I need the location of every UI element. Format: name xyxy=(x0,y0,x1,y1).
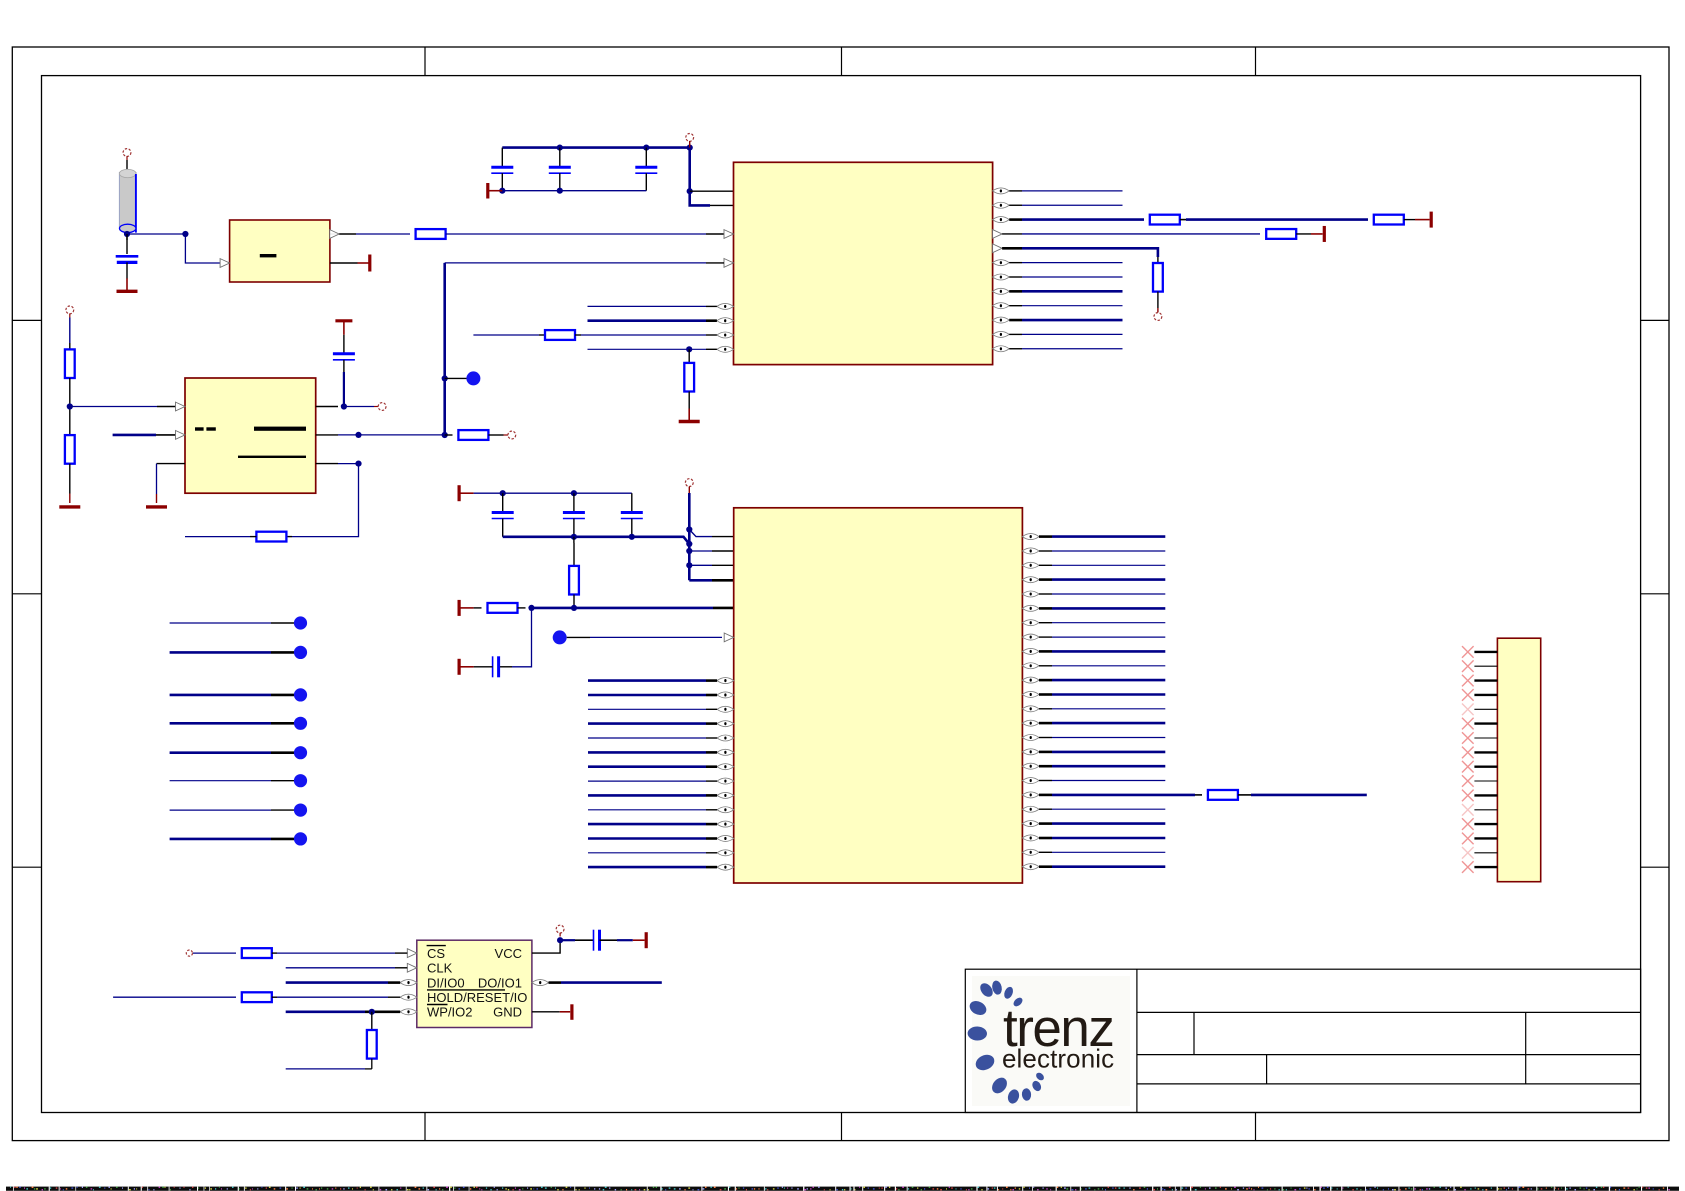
ground xyxy=(59,505,80,508)
no-ERC mark xyxy=(1462,732,1474,744)
wire xyxy=(1009,262,1122,264)
power bar xyxy=(459,600,474,616)
junction xyxy=(686,541,692,547)
wire xyxy=(690,190,734,192)
wire xyxy=(286,536,292,538)
no-ERC mark xyxy=(1462,646,1474,658)
wire xyxy=(330,262,358,264)
wire xyxy=(1009,204,1122,206)
wire xyxy=(1009,218,1144,221)
wire xyxy=(1474,737,1497,739)
wire xyxy=(1039,550,1165,552)
wire xyxy=(499,666,512,668)
wire xyxy=(588,348,717,350)
junction xyxy=(686,548,692,554)
wire xyxy=(221,262,230,264)
power bar xyxy=(633,932,646,948)
wire xyxy=(1009,333,1122,335)
power bar xyxy=(459,659,474,675)
junction xyxy=(67,403,73,409)
svg-text:CLK: CLK xyxy=(427,961,453,976)
resistor R14 xyxy=(1208,790,1238,800)
wire xyxy=(1474,866,1497,868)
resistor R9 xyxy=(65,435,75,464)
resistor R12 xyxy=(569,537,579,608)
resistor R1 xyxy=(416,229,446,239)
wire xyxy=(689,564,733,566)
resistor R8 xyxy=(65,349,75,378)
wire xyxy=(170,694,294,697)
wire RESET xyxy=(356,233,410,235)
junction xyxy=(629,534,635,540)
resistor R11 xyxy=(458,430,488,440)
wire xyxy=(343,335,345,354)
test point TP8 xyxy=(294,832,307,845)
resistor R4 xyxy=(1266,229,1296,239)
test point TP4 xyxy=(294,717,307,730)
wire xyxy=(588,837,717,840)
connector pin ring xyxy=(556,925,564,936)
no-ERC mark xyxy=(1462,689,1474,701)
wire xyxy=(688,349,690,363)
wire xyxy=(588,679,717,682)
wire xyxy=(1039,851,1165,853)
svg-text:GND: GND xyxy=(493,1005,522,1020)
resistor R15 xyxy=(242,948,272,958)
wire xyxy=(588,794,717,797)
wire xyxy=(113,996,236,998)
wire xyxy=(1474,651,1497,653)
wire EN xyxy=(113,434,176,437)
wire xyxy=(1009,305,1122,307)
wire xyxy=(170,722,294,725)
svg-text:DO/IO1: DO/IO1 xyxy=(478,975,522,990)
wire xyxy=(588,737,717,739)
wire xyxy=(1296,233,1311,235)
junction xyxy=(182,231,188,237)
wire xyxy=(1039,650,1165,653)
wire xyxy=(1157,292,1159,313)
wire xyxy=(1474,708,1497,710)
wire xyxy=(688,392,690,409)
wire xyxy=(1474,809,1497,811)
wire xyxy=(339,233,356,235)
wire xyxy=(1009,290,1122,293)
wire xyxy=(588,809,717,811)
wire xyxy=(1009,190,1122,192)
wire XTAL net xyxy=(127,233,185,235)
capacitor C4 xyxy=(635,148,657,191)
resistor R13 xyxy=(488,603,518,613)
wire xyxy=(1039,708,1165,710)
junction xyxy=(571,490,577,496)
wire xyxy=(286,981,401,984)
ground xyxy=(679,409,700,422)
capacitor C1 xyxy=(116,234,139,279)
junction xyxy=(686,346,692,352)
wire xyxy=(600,939,633,941)
wire PGOOD bus xyxy=(443,263,446,435)
title block table xyxy=(965,969,1640,1112)
wire xyxy=(445,434,453,436)
capacitor C2 xyxy=(491,148,513,191)
wire xyxy=(560,939,593,941)
power bar xyxy=(459,485,474,501)
no-ERC mark xyxy=(1462,790,1474,802)
IC U4 FPGA xyxy=(717,508,1039,883)
wire xyxy=(588,305,717,307)
junction xyxy=(643,145,649,151)
junction xyxy=(571,605,577,611)
wire xyxy=(575,334,717,336)
wire xyxy=(1002,248,1158,257)
wire VCC U4 xyxy=(532,607,734,610)
connector pin ring xyxy=(186,950,192,956)
junction xyxy=(686,562,692,568)
wire xyxy=(1009,276,1122,278)
no-ERC mark xyxy=(1462,847,1474,859)
wire xyxy=(1474,794,1497,796)
connector pin ring xyxy=(1154,313,1162,321)
test point TP2 xyxy=(294,646,307,659)
wire xyxy=(588,852,717,854)
no-ERC mark xyxy=(1462,818,1474,830)
wire xyxy=(1404,219,1415,221)
resistor R3 xyxy=(1374,215,1404,225)
wire RESET_DL xyxy=(446,233,706,235)
wire xyxy=(1474,665,1497,667)
wire xyxy=(1474,722,1497,724)
ground xyxy=(117,278,138,291)
power bar xyxy=(1415,212,1431,228)
wire xyxy=(488,434,508,436)
svg-text:CS: CS xyxy=(427,946,445,961)
wire xyxy=(170,751,294,754)
IC U2 FPGA xyxy=(717,162,1009,364)
junction xyxy=(355,432,361,438)
wire xyxy=(1039,593,1165,595)
resistor R7 xyxy=(684,363,694,392)
wire FB xyxy=(292,464,359,537)
wire xyxy=(170,780,294,782)
wire xyxy=(1039,822,1165,825)
wire xyxy=(185,234,221,263)
junction xyxy=(687,145,693,151)
no-ERC mark xyxy=(1462,775,1474,787)
trenz electronic logo xyxy=(967,976,1130,1106)
wire xyxy=(1039,535,1165,538)
wire xyxy=(69,464,71,503)
wire xyxy=(1474,823,1497,825)
wire xyxy=(1039,765,1165,768)
junction xyxy=(369,1009,375,1015)
no-ERC mark xyxy=(1462,660,1474,672)
no-connect ball xyxy=(553,630,567,644)
wire xyxy=(588,708,717,710)
wire xyxy=(1039,679,1165,682)
wire xyxy=(689,530,733,537)
wire xyxy=(473,334,545,336)
svg-text:WP/IO2: WP/IO2 xyxy=(427,1005,473,1020)
connector pin ring xyxy=(378,403,386,411)
no-ERC mark xyxy=(1462,718,1474,730)
test point TP1 xyxy=(294,616,307,629)
junction xyxy=(687,188,693,194)
no-ERC mark xyxy=(1462,704,1474,716)
svg-text:HOLD/RESET/IO: HOLD/RESET/IO xyxy=(427,990,527,1005)
crystal X1 xyxy=(119,169,136,232)
wire xyxy=(1039,564,1165,566)
wire xyxy=(316,406,338,408)
connector pin ring xyxy=(66,306,74,318)
wire xyxy=(1039,837,1165,840)
no-ERC mark xyxy=(1462,804,1474,816)
capacitor C10 xyxy=(594,930,600,951)
wire xyxy=(445,262,724,264)
wire xyxy=(1039,794,1202,797)
wire xyxy=(474,666,493,668)
power terminal ring xyxy=(686,134,694,148)
junction xyxy=(442,375,448,381)
no-connect ball xyxy=(466,371,480,385)
wire xyxy=(1039,737,1165,739)
no-ERC mark xyxy=(1462,747,1474,759)
wire xyxy=(126,233,128,240)
wire xyxy=(1039,578,1165,581)
wire xyxy=(157,463,186,465)
resistor R2 xyxy=(1150,215,1180,225)
wire xyxy=(1039,808,1165,810)
power bar xyxy=(358,255,370,272)
wire xyxy=(1157,257,1159,263)
resistor R16 xyxy=(242,992,272,1002)
wire xyxy=(1039,607,1165,610)
wire xyxy=(1474,837,1497,839)
wire xyxy=(1474,679,1497,681)
test point TP7 xyxy=(294,804,307,817)
wire xyxy=(126,160,128,173)
wire xyxy=(1009,348,1122,350)
junction xyxy=(557,188,563,194)
wire xyxy=(272,996,400,998)
wire xyxy=(1039,780,1165,782)
wire xyxy=(1180,219,1368,221)
wire xyxy=(1474,852,1497,854)
IC U5 SPI flash xyxy=(400,940,548,1027)
wire xyxy=(193,952,236,954)
wire VSENSE xyxy=(70,406,176,408)
svg-text:VCC: VCC xyxy=(495,946,522,961)
wire xyxy=(170,809,294,811)
wire xyxy=(69,378,71,435)
wire xyxy=(286,967,408,969)
wire xyxy=(567,636,722,638)
wire xyxy=(588,751,717,754)
wire xyxy=(1238,794,1367,796)
junction xyxy=(557,145,563,151)
wire xyxy=(532,940,560,953)
power bar xyxy=(560,1004,572,1020)
test point TP3 xyxy=(294,688,307,701)
wire xyxy=(518,607,526,609)
test point TP5 xyxy=(294,746,307,759)
wire xyxy=(588,722,717,725)
capacitor C6 xyxy=(492,493,514,537)
wire xyxy=(710,204,734,206)
wire xyxy=(1039,636,1165,638)
wire xyxy=(156,464,158,503)
connector pin ring xyxy=(508,431,516,439)
wire xyxy=(1039,722,1165,725)
wire xyxy=(371,1012,373,1030)
wire xyxy=(588,319,717,322)
capacitor C5 xyxy=(333,354,355,372)
wire xyxy=(1039,693,1165,696)
wire gnd rail xyxy=(502,190,646,192)
wire xyxy=(359,434,445,436)
wire xyxy=(588,823,717,826)
wire xyxy=(286,1010,401,1013)
connector J1 xyxy=(1497,638,1540,882)
wire xyxy=(1474,766,1497,768)
no-ERC mark xyxy=(1462,861,1474,873)
wire xyxy=(1474,751,1497,753)
ground xyxy=(488,183,503,199)
test point TP6 xyxy=(294,774,307,787)
capacitor C7 xyxy=(563,493,585,537)
wire rail xyxy=(474,492,632,494)
wire xyxy=(689,550,733,552)
junction xyxy=(499,188,505,194)
svg-text:DI/IO0: DI/IO0 xyxy=(427,975,465,990)
wire xyxy=(445,377,467,379)
wire xyxy=(588,866,717,869)
connector pin P1 xyxy=(123,149,131,160)
wire xyxy=(1039,751,1165,754)
junction xyxy=(341,403,347,409)
wire xyxy=(706,233,724,235)
wire xyxy=(1039,622,1165,624)
wire xyxy=(1039,865,1165,868)
capacitor C8 xyxy=(621,493,643,537)
wire xyxy=(588,694,717,697)
wire rail2 xyxy=(503,537,690,544)
wire xyxy=(474,607,482,609)
wire xyxy=(689,579,733,582)
no-ERC mark xyxy=(1462,675,1474,687)
power bar xyxy=(1311,226,1324,242)
junction xyxy=(571,534,577,540)
junction xyxy=(124,231,130,237)
no-ERC mark xyxy=(1462,761,1474,773)
power rail 3V3 top xyxy=(502,146,689,149)
no-ERC mark xyxy=(1462,833,1474,845)
svg-text:electronic: electronic xyxy=(1002,1044,1114,1074)
wire xyxy=(512,608,532,667)
wire xyxy=(170,838,294,841)
wire xyxy=(344,406,378,408)
capacitor C3 xyxy=(549,148,571,191)
wire xyxy=(286,1059,372,1069)
resistor R17 xyxy=(367,1030,377,1059)
resistor R6 xyxy=(545,330,575,340)
junction xyxy=(442,432,448,438)
IC U3 regulator xyxy=(176,378,316,493)
wire xyxy=(532,1011,560,1013)
junction xyxy=(686,526,692,532)
wire xyxy=(272,952,408,954)
junction xyxy=(557,937,563,943)
junction xyxy=(528,605,534,611)
capacitor C9 xyxy=(493,656,499,677)
junction xyxy=(355,461,361,467)
wire xyxy=(588,765,717,768)
wire xyxy=(69,318,71,350)
wire xyxy=(1474,780,1497,782)
wire xyxy=(170,651,294,654)
wire xyxy=(316,434,359,436)
wire xyxy=(1002,233,1260,235)
power terminal ring xyxy=(685,479,693,493)
ground xyxy=(146,505,167,508)
junction xyxy=(500,490,506,496)
wire xyxy=(185,536,256,538)
wire xyxy=(316,463,359,465)
resistor R5 xyxy=(1153,263,1163,292)
wire xyxy=(1039,665,1165,667)
wire xyxy=(1009,319,1122,322)
wire fan xyxy=(688,493,691,580)
wire xyxy=(1474,694,1497,696)
wire xyxy=(549,981,662,984)
wire VCCO xyxy=(690,148,710,206)
wire xyxy=(588,780,717,782)
IC U1 reset supervisor xyxy=(220,220,339,282)
power bar xyxy=(335,321,352,335)
resistor R10 xyxy=(256,532,286,542)
wire xyxy=(170,622,294,624)
wire xyxy=(343,372,345,407)
